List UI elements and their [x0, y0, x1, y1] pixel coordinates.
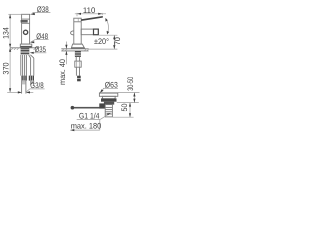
- side pipes to nut: [75, 57, 77, 61]
- side body: [74, 18, 81, 44]
- dim 70 arrows: [113, 35, 115, 39]
- side escutcheon: [71, 44, 85, 49]
- pop-up rod: [73, 107, 100, 109]
- svg-text:Ø38: Ø38: [37, 5, 49, 14]
- leader G1 1/4: [100, 114, 110, 120]
- dim 370 arrows: [9, 48, 11, 52]
- svg-text:Ø35: Ø35: [35, 45, 47, 54]
- svg-text:110: 110: [83, 6, 96, 15]
- drain seat band: [101, 98, 117, 101]
- drain tailpipe: [105, 105, 112, 117]
- svg-text:370: 370: [2, 62, 11, 75]
- drain ext line top: [118, 92, 140, 94]
- dim 110 arrows: [77, 13, 81, 15]
- side cap line: [74, 21, 81, 23]
- faucet body outline front: [22, 14, 30, 44]
- escutcheon base front: [20, 44, 32, 47]
- svg-text:70: 70: [113, 37, 122, 46]
- dim max.40 upper arrow: [65, 42, 67, 49]
- svg-text:30-50: 30-50: [126, 77, 135, 91]
- side deck lines: [61, 48, 88, 50]
- dim 134 arrows: [9, 14, 11, 18]
- drain body: [104, 102, 114, 105]
- dim 50 line: [129, 103, 131, 118]
- lever swing arc: [106, 19, 109, 34]
- max 180 riser: [99, 119, 101, 130]
- supply hoses front: [21, 55, 27, 76]
- side hose nut: [75, 61, 81, 67]
- cap joint lines: [22, 18, 30, 20]
- dim 70 line: [113, 35, 115, 49]
- side hose end connector: [77, 76, 81, 78]
- svg-text:50: 50: [120, 103, 129, 111]
- leader Ø38: [33, 12, 51, 14]
- dim 110 extension right: [101, 13, 103, 15]
- spout outlet circle: [24, 30, 28, 34]
- deck hatching front left: [11, 48, 19, 50]
- hose thread stub right: [31, 81, 34, 86]
- side hose: [75, 67, 77, 76]
- side spout: [81, 29, 98, 35]
- svg-text:134: 134: [2, 27, 11, 39]
- hose nut left: [21, 76, 26, 81]
- svg-text:Ø63: Ø63: [105, 81, 118, 90]
- svg-text:±20°: ±20°: [94, 37, 109, 46]
- dim 134 extension top: [8, 13, 21, 15]
- dim line 134-370: [9, 14, 11, 92]
- dim max. 180 line: [70, 129, 100, 131]
- side deck hatching: [62, 49, 89, 51]
- drain neck: [102, 96, 115, 99]
- deck hatching front right: [34, 48, 39, 50]
- svg-text:G1 1/4: G1 1/4: [79, 112, 100, 121]
- pop-up knob back: [71, 31, 74, 35]
- pop-up rod clamp: [99, 103, 105, 108]
- dim max.40 lower arrow: [65, 51, 67, 64]
- hose nut right: [29, 76, 34, 81]
- dim G3/8 left arrow: [7, 91, 22, 93]
- drain ext line mid: [117, 102, 139, 104]
- dim G3/8 right arrow: [26, 91, 33, 93]
- leader Ø63: [101, 88, 104, 92]
- svg-text:max. 180: max. 180: [71, 122, 102, 131]
- threaded shank front: [21, 48, 30, 55]
- leader Ø35: [33, 52, 46, 54]
- pop-up rod front: [29, 55, 34, 76]
- leader Ø48: [31, 40, 35, 43]
- deck line front: [10, 47, 38, 49]
- handle lever front band: [21, 20, 28, 23]
- svg-text:max. 40: max. 40: [58, 59, 67, 85]
- dim 110 extension left: [76, 13, 78, 16]
- side shank: [75, 51, 81, 57]
- dim 110 line: [75, 13, 106, 15]
- drain flange disc: [99, 93, 117, 96]
- G3/8 leader: [26, 89, 30, 93]
- hose thread stub left: [22, 81, 26, 94]
- dim 70 extension top: [99, 34, 118, 36]
- svg-text:Ø48: Ø48: [36, 32, 48, 41]
- dim 30-50 line: [133, 93, 135, 103]
- side lever: [81, 16, 103, 21]
- rod knob: [71, 106, 75, 110]
- dim 70 extension bottom: [89, 48, 118, 50]
- drain ext line bottom: [113, 116, 134, 118]
